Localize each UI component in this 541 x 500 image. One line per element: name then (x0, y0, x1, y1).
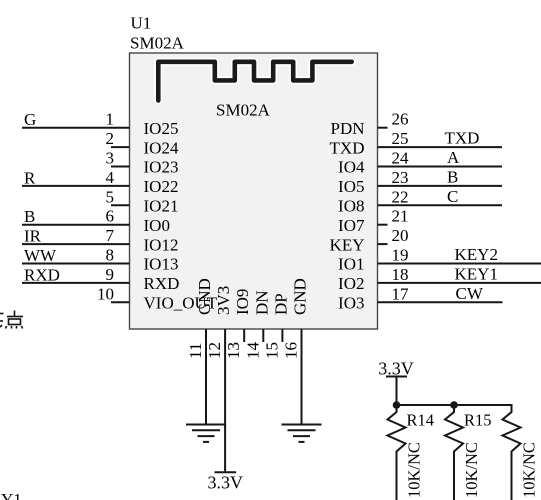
svg-text:11: 11 (186, 343, 205, 359)
svg-text:9: 9 (106, 265, 115, 284)
svg-text:IO4: IO4 (338, 158, 365, 177)
partial Chinese annotation 点 (0, 311, 23, 329)
svg-text:21: 21 (392, 207, 409, 226)
svg-text:B: B (24, 207, 35, 226)
svg-text:IO2: IO2 (338, 274, 364, 293)
svg-text:24: 24 (392, 149, 410, 168)
svg-text:IO1: IO1 (338, 255, 364, 274)
svg-text:SM02A: SM02A (130, 34, 185, 53)
svg-text:SM02A: SM02A (216, 101, 271, 120)
svg-text:WW: WW (24, 246, 57, 265)
svg-text:IO9: IO9 (233, 289, 252, 315)
svg-text:IO0: IO0 (144, 216, 170, 235)
pin 3 stub (111, 166, 130, 168)
svg-text:R15: R15 (464, 411, 492, 430)
wire net B pin 6 (22, 224, 130, 226)
svg-text:23: 23 (392, 168, 409, 187)
pin 20 stub (378, 243, 388, 245)
pin 26 stub (378, 127, 388, 129)
svg-text:B: B (447, 167, 458, 186)
pin 11 wire (205, 329, 207, 425)
svg-text:10: 10 (97, 284, 114, 303)
svg-text:TXD: TXD (330, 138, 365, 157)
svg-text:R14: R14 (407, 411, 435, 430)
svg-text:IO3: IO3 (338, 294, 364, 313)
svg-text:IO13: IO13 (144, 255, 179, 274)
pin 12 wire (224, 329, 226, 472)
ground symbol at pin 11 (186, 424, 226, 426)
svg-text:R: R (24, 168, 36, 187)
svg-text:17: 17 (392, 284, 410, 303)
wire net WW pin 8 (22, 263, 130, 265)
wire net A pin 24 (378, 166, 503, 168)
svg-text:IO25: IO25 (144, 119, 179, 138)
svg-text:16: 16 (282, 342, 301, 359)
svg-text:C: C (447, 187, 458, 206)
pin 2 stub (111, 146, 130, 148)
svg-text:KEY2: KEY2 (455, 245, 498, 264)
svg-text:10K/NC: 10K/NC (520, 442, 539, 498)
IC U1 SM02A body (130, 53, 378, 329)
logo antenna meander on U1 (158, 62, 351, 101)
pin 16 wire (301, 329, 303, 425)
svg-text:19: 19 (392, 246, 409, 265)
pin 13 wire (243, 329, 245, 342)
svg-text:Y1: Y1 (1, 490, 22, 500)
svg-text:DP: DP (271, 293, 290, 315)
svg-text:IO21: IO21 (144, 197, 179, 216)
svg-text:PDN: PDN (330, 119, 364, 138)
svg-text:A: A (447, 148, 460, 167)
svg-text:4: 4 (106, 168, 115, 187)
svg-text:12: 12 (205, 342, 224, 359)
svg-text:IO7: IO7 (338, 216, 365, 235)
svg-text:IO8: IO8 (338, 197, 364, 216)
svg-text:IO12: IO12 (144, 235, 179, 254)
svg-text:13: 13 (224, 342, 243, 359)
junction node at R14 (393, 401, 401, 409)
svg-text:GND: GND (291, 278, 310, 315)
svg-text:3: 3 (106, 149, 115, 168)
wire net G pin 1 (22, 127, 130, 129)
svg-text:3.3V: 3.3V (208, 473, 244, 493)
pin 14 wire (262, 329, 264, 342)
svg-text:14: 14 (243, 342, 262, 360)
svg-text:TXD: TXD (445, 129, 480, 148)
svg-text:CW: CW (456, 284, 484, 303)
svg-text:GND: GND (195, 278, 214, 315)
svg-text:IO5: IO5 (338, 177, 364, 196)
junction node at R15 (450, 401, 458, 409)
wire net KEY1 pin 18 (378, 282, 541, 284)
wire 3.3V bus (397, 404, 512, 406)
wire net B pin 23 (378, 185, 503, 187)
svg-text:20: 20 (392, 226, 409, 245)
svg-text:18: 18 (392, 265, 409, 284)
wire 3.3V stem (396, 377, 398, 406)
pin 5 stub (111, 204, 130, 206)
resistor R16 (503, 405, 521, 500)
svg-text:IR: IR (24, 227, 42, 246)
ground symbol at pin 16 (282, 424, 322, 426)
svg-text:IO23: IO23 (144, 158, 179, 177)
svg-text:6: 6 (106, 207, 115, 226)
wire net TXD pin 25 (378, 146, 503, 148)
svg-text:RXD: RXD (144, 274, 180, 293)
svg-text:15: 15 (262, 342, 281, 359)
svg-text:KEY1: KEY1 (455, 264, 498, 283)
svg-text:22: 22 (392, 187, 409, 206)
svg-text:26: 26 (392, 110, 409, 129)
wire net RXD pin 9 (22, 282, 130, 284)
svg-text:1: 1 (106, 110, 115, 129)
wire net C pin 22 (378, 204, 503, 206)
svg-text:7: 7 (106, 226, 115, 245)
svg-text:8: 8 (106, 246, 115, 265)
pin 15 wire (281, 329, 283, 342)
pin 10 stub (111, 301, 130, 303)
pin 21 stub (378, 224, 388, 226)
svg-text:10K/NC: 10K/NC (462, 442, 481, 498)
svg-text:RXD: RXD (24, 265, 60, 284)
svg-text:25: 25 (392, 129, 409, 148)
svg-text:G: G (24, 110, 36, 129)
svg-text:5: 5 (106, 187, 115, 206)
svg-text:2: 2 (106, 129, 115, 148)
wire corner down to R16 (511, 404, 513, 413)
resistor R15 (445, 405, 463, 500)
wire net CW pin 17 (378, 301, 503, 303)
wire net R pin 4 (22, 185, 130, 187)
wire net KEY2 pin 19 (378, 263, 541, 265)
svg-text:IO22: IO22 (144, 177, 179, 196)
svg-text:10K/NC: 10K/NC (405, 442, 424, 498)
resistor R14 (388, 405, 406, 500)
svg-text:3V3: 3V3 (214, 286, 233, 315)
svg-text:DN: DN (252, 290, 271, 315)
power symbol 3.3V at pin 12 (215, 471, 237, 473)
wire net IR pin 7 (22, 243, 130, 245)
svg-text:U1: U1 (131, 14, 152, 33)
svg-text:KEY: KEY (330, 235, 365, 254)
svg-text:IO24: IO24 (144, 138, 179, 157)
